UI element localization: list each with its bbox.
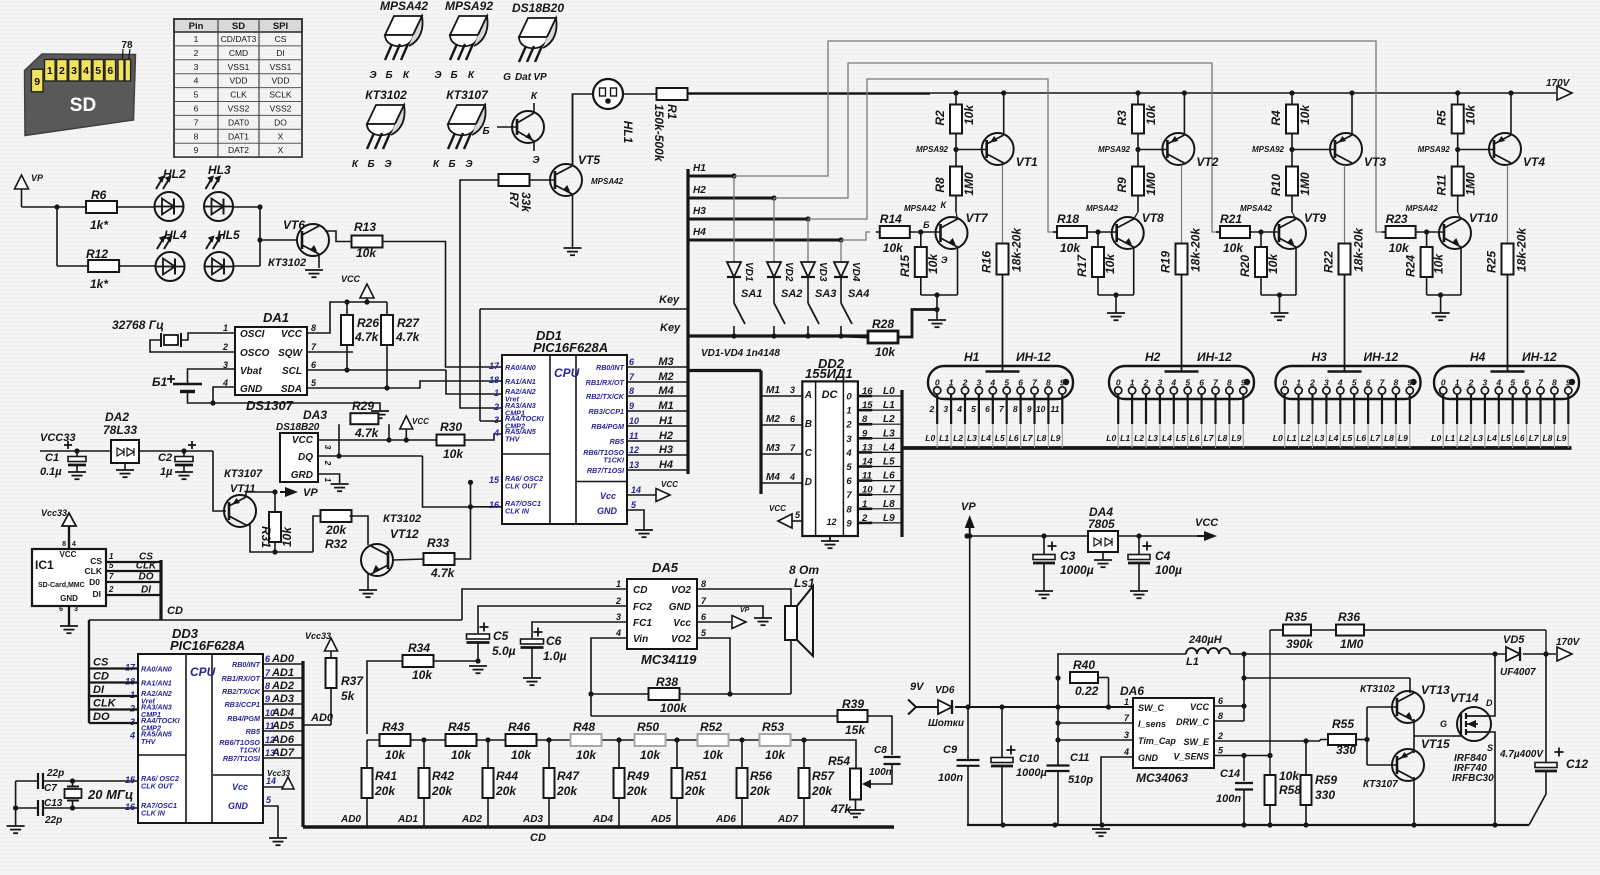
- svg-text:Б: Б: [450, 70, 457, 81]
- resistor R58: [1265, 775, 1276, 805]
- svg-text:VT4: VT4: [1523, 155, 1545, 169]
- resistor R13: [352, 236, 383, 248]
- svg-text:1M0: 1M0: [962, 172, 976, 196]
- ground DD3: [269, 837, 287, 839]
- svg-text:К: К: [433, 159, 440, 170]
- svg-text:C7: C7: [44, 783, 57, 794]
- wire SCL to DD1: [307, 369, 446, 371]
- svg-text:VD1: VD1: [743, 262, 754, 282]
- svg-text:R39: R39: [842, 697, 864, 711]
- svg-text:R59: R59: [1315, 773, 1337, 787]
- svg-text:AD0: AD0: [340, 814, 361, 825]
- svg-text:L5: L5: [1501, 433, 1511, 443]
- ground DA2: [124, 463, 126, 470]
- svg-text:7805: 7805: [1088, 517, 1115, 531]
- svg-text:8: 8: [846, 504, 852, 515]
- wire DD1 M2: [627, 381, 688, 383]
- svg-text:CPU: CPU: [190, 665, 216, 679]
- svg-text:SDA: SDA: [281, 384, 302, 395]
- wire DD3 AD4: [262, 717, 303, 719]
- nixie tube H1 IN-12: [928, 366, 1073, 399]
- svg-text:Э: Э: [369, 70, 377, 81]
- svg-text:1: 1: [109, 552, 114, 561]
- svg-text:9V: 9V: [910, 681, 925, 693]
- wire L1 left vertical: [1057, 654, 1059, 766]
- svg-text:R56: R56: [750, 769, 772, 783]
- wire emitters to gate: [1413, 719, 1415, 753]
- svg-text:18k-20k: 18k-20k: [1189, 227, 1203, 272]
- svg-text:1: 1: [846, 406, 851, 417]
- ground DA6: [1092, 828, 1110, 830]
- wire VT12 base to R33: [393, 559, 425, 560]
- wire VT14 drain: [1488, 654, 1495, 716]
- svg-text:КТ3107: КТ3107: [1363, 779, 1398, 790]
- switch SA3: [807, 278, 809, 303]
- svg-text:HL4: HL4: [164, 228, 187, 242]
- svg-text:R27: R27: [397, 316, 420, 330]
- wire VT9 emitter bottom: [1295, 247, 1297, 295]
- ground C3: [1035, 590, 1053, 592]
- svg-text:8 Om: 8 Om: [789, 563, 819, 577]
- svg-text:L3: L3: [1314, 433, 1324, 443]
- wire DA3 GRD: [318, 474, 340, 483]
- SD card icon: [25, 54, 136, 136]
- svg-text:C12: C12: [1566, 757, 1588, 771]
- svg-text:CD: CD: [530, 832, 546, 844]
- resistor R52 10k: [698, 734, 729, 746]
- svg-text:3: 3: [1158, 378, 1163, 388]
- svg-text:GND: GND: [669, 602, 691, 613]
- svg-text:3: 3: [494, 415, 499, 425]
- svg-text:3: 3: [846, 434, 852, 445]
- wire VCC pin8: [307, 302, 387, 333]
- svg-text:VT3: VT3: [1364, 155, 1386, 169]
- wire DD3 AD3: [262, 703, 303, 705]
- wire 9V line: [955, 706, 1133, 708]
- svg-text:L0: L0: [925, 433, 935, 443]
- svg-text:VD4: VD4: [850, 262, 861, 282]
- svg-text:8: 8: [701, 579, 706, 589]
- svg-text:0: 0: [1441, 378, 1446, 388]
- svg-text:3: 3: [1483, 378, 1488, 388]
- svg-text:2: 2: [962, 378, 968, 388]
- LED HL5: [205, 252, 234, 281]
- svg-text:DAT0: DAT0: [228, 117, 249, 127]
- wire row2 left: [57, 265, 90, 267]
- svg-text:MPSA42: MPSA42: [1086, 204, 1119, 213]
- wire Key-R28: [844, 336, 868, 337]
- svg-text:RB0/INT: RB0/INT: [232, 660, 261, 669]
- svg-text:ИН-12: ИН-12: [1197, 350, 1232, 364]
- svg-text:Key: Key: [659, 294, 680, 306]
- svg-text:C1: C1: [45, 452, 59, 464]
- svg-text:R3: R3: [1115, 110, 1129, 126]
- svg-text:VD5: VD5: [1503, 634, 1525, 646]
- svg-text:3: 3: [74, 606, 78, 613]
- svg-text:L5: L5: [995, 433, 1005, 443]
- wire R32 to VT12 collector: [350, 516, 369, 545]
- wire ladder to R54: [804, 740, 856, 769]
- svg-text:9: 9: [34, 76, 40, 88]
- svg-text:8: 8: [1227, 378, 1232, 388]
- svg-text:C4: C4: [1155, 549, 1171, 563]
- svg-text:2: 2: [928, 404, 934, 414]
- resistor R34: [403, 655, 434, 667]
- resistor R41 20k: [366, 740, 368, 768]
- resistor R31: [269, 512, 281, 542]
- svg-text:CD: CD: [633, 585, 647, 596]
- M bus DD1-DD2: [688, 369, 761, 372]
- svg-text:16: 16: [489, 500, 500, 510]
- svg-text:2: 2: [1309, 378, 1315, 388]
- resistor R20: [1255, 247, 1267, 277]
- svg-text:RA1/AN1: RA1/AN1: [141, 679, 172, 688]
- svg-text:H4: H4: [693, 227, 706, 238]
- svg-text:IC1: IC1: [35, 558, 54, 572]
- svg-text:Э: Э: [941, 255, 948, 265]
- svg-text:VT6: VT6: [283, 218, 305, 232]
- svg-text:C5: C5: [493, 629, 509, 643]
- svg-text:20k: 20k: [325, 523, 347, 537]
- svg-text:6: 6: [107, 65, 113, 77]
- svg-text:DA6: DA6: [1120, 684, 1144, 698]
- transistor VT2 MPSA92: [1162, 133, 1194, 165]
- wire crystal-OSCI: [181, 333, 235, 340]
- svg-text:L6: L6: [883, 471, 895, 482]
- svg-text:GND: GND: [597, 506, 618, 516]
- svg-text:VT12: VT12: [390, 527, 419, 541]
- svg-text:AD6: AD6: [715, 814, 736, 825]
- svg-text:0: 0: [1282, 378, 1287, 388]
- svg-text:8: 8: [1552, 378, 1557, 388]
- svg-text:MPSA92: MPSA92: [916, 145, 949, 154]
- svg-text:R30: R30: [440, 420, 462, 434]
- resistor R26: [341, 315, 353, 345]
- routing H2 to stage3: [774, 63, 1221, 232]
- svg-text:Tim_Cap: Tim_Cap: [1138, 736, 1176, 746]
- wire DA3 DQ: [318, 455, 423, 457]
- resistor R28: [868, 331, 898, 343]
- svg-text:VT9: VT9: [1304, 211, 1326, 225]
- svg-text:CLK: CLK: [93, 698, 117, 710]
- svg-text:78L33: 78L33: [103, 423, 137, 437]
- svg-text:10k: 10k: [926, 253, 940, 274]
- svg-text:R53: R53: [762, 720, 784, 734]
- svg-text:DA1: DA1: [263, 310, 289, 325]
- svg-text:0.1µ: 0.1µ: [40, 466, 62, 478]
- svg-text:AD1: AD1: [397, 814, 418, 825]
- svg-text:5: 5: [1510, 378, 1515, 388]
- svg-text:11: 11: [629, 431, 638, 441]
- svg-text:R42: R42: [432, 769, 454, 783]
- svg-text:14: 14: [631, 485, 641, 495]
- resistor R50 10k: [635, 734, 666, 746]
- wire R14 to base: [910, 231, 941, 233]
- ground C2: [175, 471, 193, 473]
- resistor R51 20k: [674, 737, 679, 742]
- svg-text:MPSA42: MPSA42: [380, 0, 428, 13]
- wire DD3 AD1: [262, 677, 303, 679]
- wire R7 base: [530, 179, 557, 181]
- wire DD2 output L4: [858, 451, 872, 454]
- svg-text:C6: C6: [546, 634, 562, 648]
- wire Vin down: [591, 638, 627, 716]
- H2 stub: [688, 197, 774, 200]
- svg-text:10k: 10k: [451, 748, 472, 762]
- wire VT6 emitter ground: [318, 254, 320, 268]
- wire R38 right to speaker: [680, 693, 792, 695]
- svg-text:К: К: [403, 70, 410, 81]
- svg-text:L8: L8: [1217, 433, 1227, 443]
- wire R30 to DD1 RA5: [465, 434, 502, 440]
- svg-text:L0: L0: [1431, 433, 1441, 443]
- svg-text:10k: 10k: [1464, 104, 1478, 125]
- svg-text:DS1307: DS1307: [246, 398, 294, 413]
- bottom rail: [967, 824, 1529, 826]
- svg-text:4: 4: [989, 378, 995, 388]
- IC IC1 SD-Card box: [32, 549, 106, 606]
- ground VT12: [359, 589, 377, 591]
- svg-text:4: 4: [789, 472, 795, 482]
- svg-text:L4: L4: [981, 433, 991, 443]
- svg-text:AD2: AD2: [461, 814, 482, 825]
- svg-text:VT7: VT7: [966, 211, 989, 225]
- svg-text:К: К: [352, 159, 359, 170]
- svg-text:R12: R12: [86, 247, 108, 261]
- svg-text:2: 2: [59, 65, 65, 77]
- transistor VT8 MPSA42: [1112, 217, 1144, 249]
- svg-text:C3: C3: [1060, 549, 1076, 563]
- svg-text:RB1/RX/OT: RB1/RX/OT: [586, 378, 625, 387]
- wire R39 line: [591, 715, 838, 717]
- wire VT2 emitter to rail: [1183, 93, 1185, 135]
- svg-text:R50: R50: [637, 720, 659, 734]
- svg-text:DI: DI: [276, 48, 285, 58]
- resistor R55: [1328, 734, 1356, 745]
- svg-text:R16: R16: [980, 251, 994, 273]
- svg-text:C8: C8: [874, 745, 887, 756]
- routing H4 to stage1: [841, 232, 870, 240]
- svg-text:1M0: 1M0: [1298, 172, 1312, 196]
- svg-text:5: 5: [1185, 378, 1190, 388]
- svg-text:6: 6: [985, 404, 990, 414]
- svg-text:AD3: AD3: [522, 814, 543, 825]
- resistor R29: [350, 413, 378, 424]
- svg-text:1M0: 1M0: [1340, 637, 1364, 651]
- svg-text:4.7µ400V: 4.7µ400V: [1499, 749, 1544, 760]
- svg-text:10k: 10k: [576, 748, 597, 762]
- svg-text:GRD: GRD: [291, 470, 313, 481]
- svg-text:C14: C14: [1220, 768, 1240, 780]
- svg-text:12: 12: [827, 517, 837, 527]
- VP arrow top-left: [15, 175, 29, 189]
- capacitor C1: [64, 444, 72, 446]
- svg-text:SW_E: SW_E: [1183, 737, 1210, 747]
- svg-text:16: 16: [125, 802, 136, 812]
- wire DD1 M1: [627, 410, 688, 412]
- svg-text:390k: 390k: [1286, 637, 1314, 651]
- ladder top line: [367, 739, 804, 741]
- IC1 bus vertical: [159, 560, 162, 620]
- svg-text:SQW: SQW: [278, 348, 303, 359]
- wire speaker bottom: [790, 640, 792, 694]
- wire Vbat: [188, 369, 236, 384]
- svg-text:L7: L7: [1370, 433, 1381, 443]
- wire rail drop R3: [1137, 93, 1139, 104]
- svg-text:15: 15: [489, 475, 500, 485]
- wire R19 to tube anode: [1181, 275, 1183, 372]
- svg-text:R13: R13: [354, 220, 376, 234]
- svg-text:VSS2: VSS2: [228, 104, 250, 114]
- switch SA2: [773, 278, 775, 303]
- svg-text:VDD: VDD: [272, 76, 290, 86]
- resistor R6: [86, 201, 117, 213]
- resistor R33: [424, 553, 455, 565]
- wire to VT11 base: [213, 451, 226, 511]
- resistor R45 10k: [446, 734, 477, 746]
- wire R29 left vertical to DQ: [338, 424, 340, 456]
- svg-text:10k: 10k: [443, 447, 464, 461]
- wire row2 right: [233, 265, 260, 267]
- svg-text:SA4: SA4: [848, 288, 869, 300]
- svg-text:R43: R43: [382, 720, 404, 734]
- svg-text:4: 4: [72, 541, 76, 548]
- wire R40 right to pin1: [1098, 677, 1109, 679]
- wire VT13 collector: [1409, 678, 1411, 693]
- svg-text:Vcc: Vcc: [600, 491, 616, 501]
- wire DD1 Vcc pin14: [627, 494, 656, 496]
- wire DD2 output L8: [858, 507, 872, 510]
- DD3 left bus: [88, 620, 90, 723]
- VCC rail 5V: [970, 535, 1204, 537]
- svg-text:7: 7: [194, 117, 199, 127]
- svg-text:DQ: DQ: [298, 452, 313, 463]
- svg-text:IRFBC30: IRFBC30: [1452, 773, 1494, 784]
- svg-text:8: 8: [1218, 711, 1223, 721]
- svg-text:L1: L1: [883, 400, 895, 411]
- svg-text:RB5: RB5: [610, 437, 625, 446]
- svg-text:Vcc33: Vcc33: [267, 769, 291, 778]
- svg-text:33k: 33k: [519, 192, 533, 213]
- svg-text:1: 1: [323, 478, 332, 483]
- svg-text:6: 6: [1199, 378, 1204, 388]
- svg-text:4: 4: [845, 448, 852, 459]
- svg-text:L6: L6: [1356, 433, 1366, 443]
- svg-text:4: 4: [1123, 747, 1129, 757]
- svg-text:C9: C9: [943, 744, 958, 756]
- svg-text:R5: R5: [1435, 110, 1449, 126]
- svg-text:VCC: VCC: [341, 274, 361, 284]
- svg-text:6: 6: [1366, 378, 1371, 388]
- wire R34 right: [434, 660, 479, 662]
- wire pin15 line: [16, 780, 38, 782]
- svg-text:R6: R6: [91, 188, 107, 202]
- wire RA7 stub: [471, 506, 503, 508]
- svg-text:18k-20k: 18k-20k: [1010, 227, 1024, 272]
- wire R3 base junction: [1137, 134, 1139, 167]
- svg-text:20k: 20k: [374, 784, 396, 798]
- svg-text:L1: L1: [939, 433, 949, 443]
- svg-text:10k: 10k: [1103, 253, 1117, 274]
- svg-text:1: 1: [47, 65, 53, 77]
- svg-text:AD2: AD2: [271, 680, 294, 692]
- svg-text:HL1: HL1: [621, 121, 635, 144]
- wire C8 to R54 wiper: [869, 764, 892, 784]
- svg-text:Vcc: Vcc: [673, 618, 691, 629]
- svg-text:18k-20k: 18k-20k: [1352, 227, 1366, 272]
- svg-text:1: 1: [949, 378, 954, 388]
- svg-text:CLK OUT: CLK OUT: [505, 482, 538, 491]
- nixie L bus vertical: [900, 390, 903, 537]
- svg-text:CD: CD: [93, 671, 109, 683]
- wire R38 left: [591, 693, 649, 695]
- svg-text:3: 3: [323, 445, 332, 450]
- ground DD1: [635, 529, 653, 531]
- svg-text:2: 2: [323, 460, 332, 466]
- svg-text:Vin: Vin: [633, 634, 648, 645]
- svg-text:SD: SD: [232, 21, 245, 32]
- svg-text:L4: L4: [1487, 433, 1497, 443]
- wire R49 to CD bus: [618, 798, 620, 827]
- resistor R39: [838, 710, 868, 722]
- svg-text:R37: R37: [341, 674, 364, 688]
- svg-text:0: 0: [935, 378, 940, 388]
- svg-text:10k: 10k: [1266, 253, 1280, 274]
- svg-text:Б: Б: [482, 126, 489, 137]
- transistor VT9 MPSA42: [1274, 217, 1306, 249]
- svg-text:AD4: AD4: [592, 814, 613, 825]
- svg-text:MPSA42: MPSA42: [591, 177, 624, 186]
- svg-text:R34: R34: [408, 641, 430, 655]
- svg-text:5: 5: [95, 65, 101, 77]
- wire SQW stub: [307, 351, 353, 353]
- svg-text:1M0: 1M0: [1464, 172, 1478, 196]
- svg-text:7: 7: [109, 572, 114, 581]
- wire VCC33 rail: [40, 450, 111, 452]
- wire right vertical: [259, 207, 261, 266]
- svg-text:2: 2: [615, 596, 621, 606]
- svg-text:L6: L6: [1009, 433, 1019, 443]
- wire VT1 emitter to rail: [1003, 93, 1005, 135]
- svg-text:L7: L7: [1204, 433, 1215, 443]
- svg-text:VT8: VT8: [1142, 211, 1164, 225]
- svg-text:10k: 10k: [280, 526, 294, 547]
- wire FC2 to C5: [478, 606, 627, 633]
- svg-text:AD7: AD7: [271, 747, 295, 759]
- svg-text:330: 330: [1315, 788, 1335, 802]
- svg-text:5: 5: [1004, 378, 1009, 388]
- wire pin3 Key: [480, 420, 502, 422]
- svg-text:8: 8: [1394, 378, 1399, 388]
- svg-text:CS: CS: [90, 556, 102, 566]
- svg-text:H2: H2: [693, 185, 706, 196]
- svg-text:VCC: VCC: [661, 480, 678, 489]
- IC1 pin wires to bus: [106, 561, 161, 563]
- svg-text:L1: L1: [1445, 433, 1455, 443]
- H1 stub: [688, 175, 734, 178]
- svg-text:47k: 47k: [830, 802, 852, 816]
- ground DA1: [371, 410, 389, 412]
- svg-text:1: 1: [862, 499, 867, 510]
- ground DD2: [821, 540, 839, 542]
- resistor R57 20k: [801, 737, 806, 742]
- svg-text:6: 6: [846, 476, 852, 487]
- wire DD3 AD6: [262, 744, 303, 746]
- svg-text:L0: L0: [883, 386, 895, 397]
- resistor R32: [321, 510, 352, 522]
- svg-text:H1: H1: [693, 163, 706, 174]
- svg-text:18: 18: [489, 375, 499, 385]
